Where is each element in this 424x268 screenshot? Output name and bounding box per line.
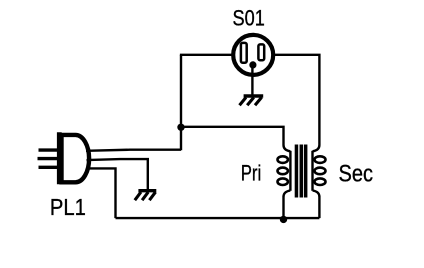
wire S01 right to secondary top: [274, 55, 320, 145]
node junction B: [280, 216, 287, 223]
wire PL1 ground lead: [87, 159, 148, 189]
svg-text:Sec: Sec: [339, 160, 374, 187]
wire PL1 neutral lead: [87, 168, 116, 218]
svg-text:S01: S01: [233, 5, 265, 30]
wire riser PL1 to S01: [180, 55, 182, 151]
transformer T1 primary winding: [278, 145, 291, 218]
wire bottom rail: [116, 217, 320, 219]
wire node A to transformer primary top: [181, 127, 284, 145]
transformer T1 secondary winding: [313, 145, 326, 218]
plug PL1 prongs: [38, 150, 59, 167]
node junction A: [177, 124, 184, 131]
plug PL1 body: [59, 132, 89, 184]
socket S01: [233, 35, 273, 95]
svg-text:Pri: Pri: [241, 161, 262, 186]
transformer core: [295, 145, 308, 198]
svg-text:PL1: PL1: [50, 194, 86, 220]
wire top to S01 left: [180, 54, 233, 56]
ground below PL1: [135, 191, 157, 201]
wire PL1 hot lead: [86, 150, 181, 151]
ground below S01: [240, 96, 264, 105]
